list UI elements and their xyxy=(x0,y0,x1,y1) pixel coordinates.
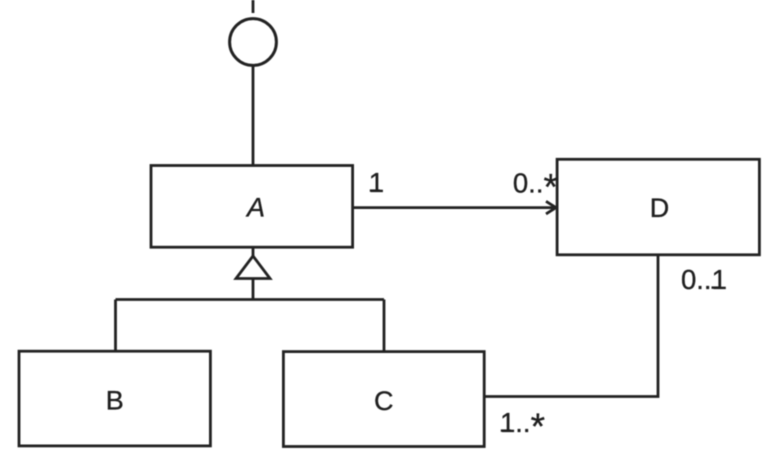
class C box xyxy=(283,352,484,447)
svg-text:C: C xyxy=(374,386,394,416)
svg-text:0..*: 0..* xyxy=(513,167,558,208)
svg-text:1..*: 1..* xyxy=(500,406,545,447)
wire: association A to D xyxy=(353,206,555,209)
wire: tree connector horizontal xyxy=(116,298,385,301)
svg-text:1: 1 xyxy=(369,167,384,198)
svg-text:0..1: 0..1 xyxy=(681,264,727,295)
wire: circle to class A xyxy=(252,66,255,166)
wire: triangle to tree connector xyxy=(252,279,255,300)
wire: drop to C xyxy=(383,300,386,352)
svg-text:B: B xyxy=(106,386,124,416)
interface lollipop circle xyxy=(230,19,277,66)
svg-text:A: A xyxy=(245,193,265,223)
generalization triangle xyxy=(236,256,270,279)
wire: drop to B xyxy=(114,300,117,352)
wire: top stub above interface circle xyxy=(252,0,255,13)
arrowhead at D xyxy=(546,201,556,214)
class B box xyxy=(19,351,210,446)
wire: C to D elbow xyxy=(484,255,658,397)
svg-text:D: D xyxy=(650,193,670,223)
class A box xyxy=(151,166,353,248)
class D box xyxy=(557,159,759,255)
wire: A bottom to generalization triangle xyxy=(252,247,255,256)
